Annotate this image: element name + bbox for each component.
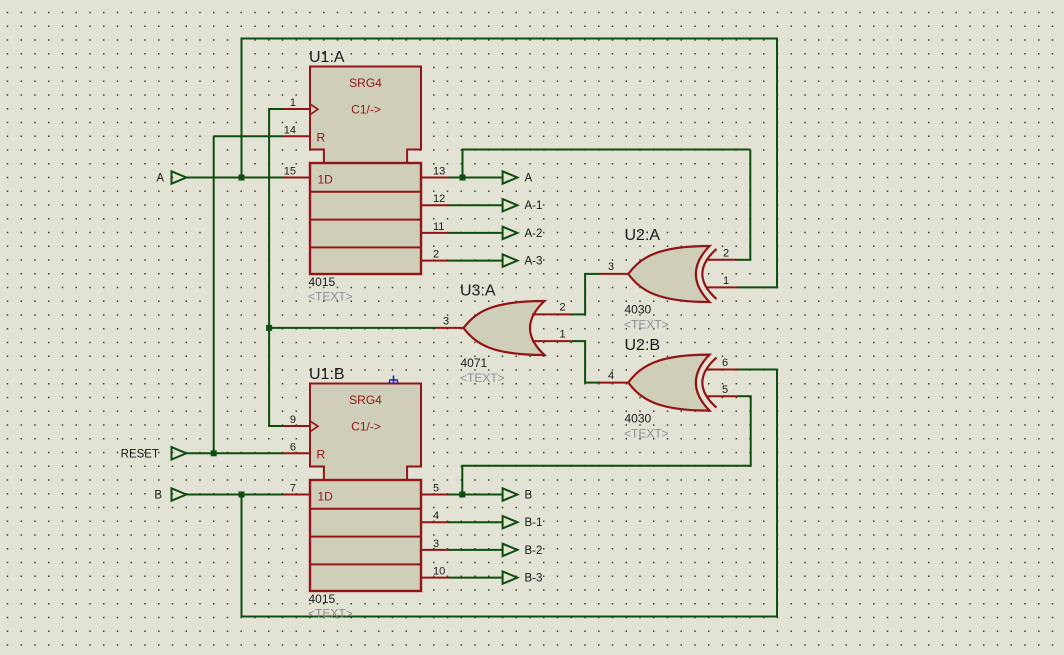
svg-text:6: 6 — [722, 357, 728, 369]
pin stub U2:A input pin 2 — [706, 259, 737, 261]
or-gate U3:A body — [464, 301, 545, 355]
svg-text:4: 4 — [433, 510, 439, 522]
U2:B output stub pin 4 — [600, 382, 629, 384]
svg-text:4015: 4015 — [309, 275, 336, 289]
wire pin to terminal A-3 — [449, 260, 503, 262]
pin stub U1:A pin 15 — [283, 177, 310, 179]
svg-text:U2:B: U2:B — [625, 337, 661, 354]
wire B net into U2:B pin 6 — [738, 369, 778, 371]
svg-text:SRG4: SRG4 — [349, 393, 382, 407]
svg-text:1: 1 — [560, 329, 566, 341]
svg-text:<TEXT>: <TEXT> — [624, 427, 669, 441]
svg-text:B-1: B-1 — [525, 517, 543, 529]
svg-text:2: 2 — [433, 249, 439, 261]
wire pin to terminal A-2 — [449, 232, 503, 234]
xor-gate U2:B body — [628, 355, 709, 411]
svg-text:4015: 4015 — [309, 592, 336, 606]
wire A net top horizontal — [241, 38, 779, 40]
svg-text:RESET: RESET — [121, 448, 159, 460]
pin stub U1:A pin 12 — [421, 204, 449, 206]
wire clock vertical — [268, 109, 270, 426]
junction B input net — [239, 492, 245, 498]
svg-text:12: 12 — [433, 193, 445, 205]
pin stub U1:A pin 11 — [421, 232, 449, 234]
wire stored-B into U2:B pin 5 — [738, 395, 752, 397]
wire B net bottom horizontal — [241, 616, 779, 618]
pin stub U1:A pin 13 — [421, 177, 449, 179]
svg-text:10: 10 — [433, 566, 445, 578]
terminal input A — [172, 171, 187, 183]
shift register U1:A register block — [310, 163, 421, 274]
wire A terminal to U1:A pin 15 — [186, 177, 283, 179]
wire RESET to U1:A pin 14 — [214, 135, 283, 137]
junction stored-A tap — [460, 175, 466, 181]
wire U2:B out vertical up — [584, 341, 586, 384]
pin stub U1:B pin 4 — [421, 521, 449, 523]
wire pin to terminal B-2 — [449, 549, 503, 551]
svg-text:1: 1 — [290, 97, 296, 109]
svg-text:C1/->: C1/-> — [351, 420, 381, 434]
pin stub U1:B pin 7 — [283, 494, 310, 496]
svg-text:C1/->: C1/-> — [351, 103, 381, 117]
U1:B clock chevron — [311, 421, 319, 431]
terminal output A — [503, 171, 518, 183]
svg-text:A-1: A-1 — [525, 200, 543, 212]
svg-text:A-2: A-2 — [525, 228, 543, 240]
wire stored-A into U2:A pin 2 — [737, 259, 751, 261]
shift register U1:A control block — [310, 67, 421, 164]
wire clock to U1:A pin 1 — [268, 108, 283, 110]
wire U2:A out vertical down — [584, 273, 586, 315]
wire B net left vertical — [241, 495, 243, 618]
terminal input B — [172, 488, 187, 500]
pin stub U1:A pin 2 — [421, 260, 449, 262]
pin stub U1:A pin 14 — [283, 135, 310, 137]
wire U1:B pin 5 to terminal B — [449, 494, 503, 496]
wire into U3:A pin 1 — [572, 340, 586, 342]
wire pin to terminal A-1 — [449, 204, 503, 206]
svg-text:A: A — [525, 173, 533, 185]
wire OR output to clock vertical — [269, 327, 436, 329]
pin stub U1:B pin 5 — [421, 494, 449, 496]
pin stub U3:A input pin 1 — [532, 340, 572, 342]
svg-text:4071: 4071 — [461, 356, 488, 370]
wire stored-B vertical to U2:B pin 5 — [750, 396, 752, 467]
pin stub U1:B pin 3 — [421, 549, 449, 551]
svg-text:3: 3 — [608, 261, 614, 273]
wire clock to U1:B pin 9 — [268, 425, 283, 427]
pin stub U1:B pin 6 — [283, 452, 310, 454]
terminal output A-3 — [503, 254, 518, 266]
xor-gate U2:A body — [628, 246, 709, 302]
svg-text:R: R — [317, 131, 326, 145]
origin marker (blue) — [389, 376, 398, 385]
svg-text:3: 3 — [433, 538, 439, 550]
wire U2:B pin 4 out green — [585, 382, 600, 384]
pin stub U2:A input pin 1 — [706, 286, 737, 288]
wire U1:A pin 13 to terminal A — [449, 177, 503, 179]
pin stub U3:A input pin 2 — [532, 313, 572, 315]
svg-text:U1:A: U1:A — [309, 49, 345, 66]
svg-text:U1:B: U1:B — [309, 366, 345, 383]
svg-text:4030: 4030 — [625, 303, 652, 317]
svg-text:1D: 1D — [318, 490, 334, 504]
wire into U3:A pin 2 — [572, 313, 586, 315]
wire stored-B horizontal — [461, 465, 750, 467]
wire B terminal to U1:B pin 7 — [186, 494, 283, 496]
wire B net right vertical to U2:B pin 6 — [776, 370, 778, 618]
svg-text:B: B — [525, 490, 533, 502]
svg-text:<TEXT>: <TEXT> — [624, 318, 669, 332]
pin stub U2:B input pin 6 — [706, 369, 738, 371]
terminal input RESET — [172, 447, 187, 459]
svg-text:1D: 1D — [318, 173, 334, 187]
shift register U1:B register block — [310, 480, 421, 591]
pin stub U1:B pin 9 — [283, 425, 310, 427]
svg-text:4: 4 — [608, 370, 614, 382]
U1:B row dividers — [310, 509, 421, 565]
wire RESET terminal to U1:B pin 6 — [186, 452, 283, 454]
U2:B xor arc — [702, 358, 716, 408]
svg-text:B-3: B-3 — [525, 573, 543, 585]
wire stored-A vertical riser — [462, 150, 464, 178]
wire A net right vertical to U2:A pin 1 — [776, 39, 778, 288]
wire stored-A horizontal — [462, 149, 751, 151]
svg-text:2: 2 — [560, 302, 566, 314]
svg-text:3: 3 — [443, 316, 449, 328]
pin stub U1:A pin 1 — [283, 108, 310, 110]
svg-text:15: 15 — [284, 166, 296, 178]
svg-text:SRG4: SRG4 — [349, 76, 382, 90]
U1:A clock chevron — [311, 104, 319, 114]
wire A net left vertical — [241, 38, 243, 178]
terminal output A-1 — [503, 199, 518, 211]
junction clock net at OR output — [266, 325, 272, 331]
svg-text:5: 5 — [433, 483, 439, 495]
svg-text:<TEXT>: <TEXT> — [308, 290, 353, 304]
junction stored-B tap — [459, 492, 465, 498]
svg-text:A: A — [156, 173, 164, 185]
svg-text:<TEXT>: <TEXT> — [308, 607, 353, 621]
terminal output A-2 — [503, 227, 518, 239]
svg-text:U3:A: U3:A — [460, 283, 496, 300]
svg-text:2: 2 — [723, 248, 729, 260]
svg-text:13: 13 — [433, 166, 445, 178]
terminal output B — [503, 488, 518, 500]
wire A net into U2:A pin 1 — [737, 286, 778, 288]
pin stub U1:B pin 10 — [421, 577, 449, 579]
wire U2:A pin 3 out green — [585, 273, 600, 275]
pin stub U2:B input pin 5 — [706, 395, 738, 397]
svg-text:4030: 4030 — [625, 412, 652, 426]
wire stored-B vertical riser — [461, 466, 463, 495]
wire RESET vertical — [213, 136, 215, 453]
svg-text:U2:A: U2:A — [625, 227, 661, 244]
svg-text:11: 11 — [433, 221, 444, 233]
junction RESET net — [211, 450, 217, 456]
svg-text:9: 9 — [290, 414, 296, 426]
U2:A output stub pin 3 — [600, 273, 629, 275]
terminal output B-3 — [503, 571, 518, 583]
svg-text:5: 5 — [722, 384, 728, 396]
svg-text:B: B — [154, 490, 162, 502]
svg-text:R: R — [317, 448, 326, 462]
U2:A xor arc — [702, 249, 716, 299]
svg-text:B-2: B-2 — [525, 545, 543, 557]
terminal output B-2 — [503, 544, 518, 556]
svg-text:A-3: A-3 — [525, 256, 543, 268]
shift register U1:B control block — [310, 384, 421, 481]
svg-text:6: 6 — [290, 441, 296, 453]
svg-text:7: 7 — [290, 483, 296, 495]
wire pin to terminal B-1 — [449, 521, 503, 523]
wire pin to terminal B-3 — [449, 577, 503, 579]
svg-text:14: 14 — [284, 124, 296, 136]
svg-text:<TEXT>: <TEXT> — [460, 371, 505, 385]
wire stored-A vertical drop to U2:A pin 2 — [749, 150, 751, 260]
U3:A output stub pin 3 — [436, 327, 465, 329]
svg-text:1: 1 — [723, 275, 729, 287]
U1:A row dividers — [310, 192, 421, 248]
terminal output B-1 — [503, 516, 518, 528]
junction A input net — [239, 175, 245, 181]
